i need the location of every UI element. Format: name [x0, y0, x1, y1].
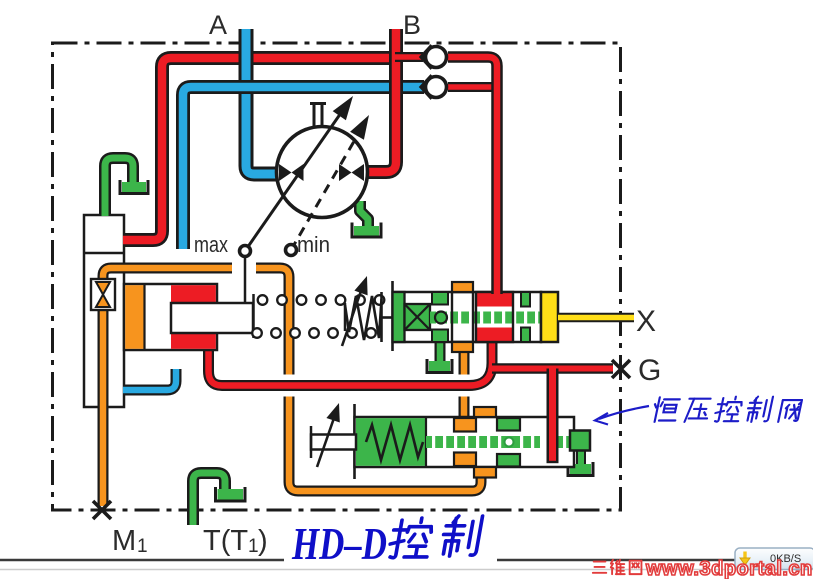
lower valve spool (green dashed)	[426, 435, 574, 448]
download status box 0KB/S	[735, 548, 813, 570]
annotation kong (控)	[714, 397, 744, 422]
drain line from upper valve	[435, 341, 446, 365]
drain line to tank at T port	[193, 473, 225, 525]
svg-text:1: 1	[137, 536, 148, 557]
svg-text:X: X	[636, 305, 656, 338]
red branch check valve 2 outlet	[448, 82, 495, 92]
watermark wei (维)	[611, 560, 625, 574]
svg-text:B: B	[403, 10, 421, 40]
caption character zhi (制)	[440, 516, 483, 556]
drain line to tank (top-left)	[105, 158, 133, 216]
red line B-side loop to pilot body	[123, 58, 393, 240]
lower valve green end block	[570, 431, 590, 451]
watermark wang (网)	[630, 561, 642, 574]
annotation fa (阀)	[778, 400, 802, 422]
svg-text:1: 1	[248, 536, 259, 557]
annotation arrow to lower valve	[595, 406, 649, 425]
yellow line to port X	[558, 313, 634, 323]
stroking cylinder body	[124, 284, 217, 350]
lower valve adjustment arrow	[317, 403, 340, 467]
upper control valve (pressure compensator)	[393, 281, 542, 351]
check valve 2 (from A)	[422, 76, 447, 99]
blue branch line to check valve and left drop	[183, 87, 424, 249]
annotation zhi (制)	[745, 397, 773, 422]
red arm to port G	[492, 363, 613, 374]
lower valve orange tabs (pilot connections)	[474, 407, 496, 478]
lower valve orange land column	[454, 418, 476, 466]
blue line from port A down to pump inlet	[246, 29, 278, 174]
port G plug mark	[612, 360, 630, 378]
variable displacement pump circle	[277, 127, 368, 218]
red feed from check valves to upper valve	[448, 57, 497, 294]
link line from max pivot to piston rod	[244, 256, 247, 303]
check valve 1 (from B)	[422, 46, 447, 69]
pump flow triangles right	[339, 164, 364, 181]
tank symbol (top-left)	[120, 180, 148, 194]
red supply through lower valve	[547, 369, 559, 463]
upper valve spool (green dashed)	[430, 311, 541, 324]
max stroke arrow (solid diagonal)	[245, 96, 353, 251]
tank symbol (lower valve drain)	[568, 462, 593, 476]
orifice / nozzle symbol in pilot body	[91, 279, 115, 310]
coil spring circles bottom row	[252, 328, 376, 338]
upper valve orange land column	[452, 282, 473, 352]
pump shaft	[310, 104, 326, 128]
tank symbol (pump case drain)	[352, 223, 381, 238]
coil spring circles top row	[258, 295, 385, 305]
page bottom rule dark segments	[0, 559, 737, 561]
red branch B to check valve 1	[395, 52, 423, 62]
border frame dash-dot	[53, 43, 621, 510]
drain line from pump case	[360, 201, 368, 230]
svg-text:): )	[258, 525, 268, 557]
lower valve (constant pressure control valve) body	[355, 404, 575, 479]
annotation ya (压)	[685, 399, 712, 422]
max pivot circle	[240, 246, 251, 257]
drain line from lower valve	[576, 449, 586, 466]
orange pilot line through orifice down to M1 port	[103, 268, 232, 506]
upper valve adjustable spring zigzag	[345, 292, 394, 342]
svg-text:G: G	[638, 354, 661, 387]
svg-text:T(T: T(T	[203, 525, 248, 557]
min stroke arrow (dashed diagonal)	[291, 115, 369, 250]
orange stem from upper valve down to lower valve	[459, 351, 470, 419]
red line from port B down to pump outlet	[366, 29, 396, 172]
orange pilot line: elbow down and U to lower valve	[256, 268, 481, 491]
upper valve closed position X box	[405, 304, 431, 330]
upper valve thin green bars	[521, 292, 530, 342]
piston rod	[171, 294, 254, 338]
min pivot circle	[286, 245, 297, 256]
upper valve red pressure column	[476, 292, 513, 342]
svg-text:min: min	[297, 232, 330, 257]
upper valve yellow end block	[541, 292, 558, 342]
annotation heng (恒)	[651, 397, 680, 421]
tank symbol (upper valve drain)	[427, 359, 452, 373]
pump flow triangles left	[279, 164, 304, 181]
svg-text:max: max	[194, 232, 228, 257]
tank symbol (T port)	[216, 487, 246, 501]
svg-text:M: M	[112, 525, 136, 557]
caption character kong (控)	[388, 518, 434, 558]
page bottom light rule	[0, 569, 813, 571]
upper spring adjustment arrow	[342, 276, 368, 346]
port M1 plug mark	[93, 501, 111, 519]
blue case line elbow under cylinder	[123, 369, 176, 390]
lower valve adjusting rod	[311, 426, 356, 458]
watermark san (三)	[593, 562, 606, 573]
pilot valve body (left white box)	[84, 215, 124, 407]
lower valve green land column	[497, 418, 520, 467]
red line cylinder drain to valve (with white halo)	[209, 341, 493, 386]
svg-text:HD–D: HD–D	[291, 518, 387, 569]
lower valve green spring chamber	[356, 417, 426, 467]
svg-text:www.3dportal.cn: www.3dportal.cn	[645, 558, 813, 579]
svg-text:A: A	[209, 10, 227, 40]
